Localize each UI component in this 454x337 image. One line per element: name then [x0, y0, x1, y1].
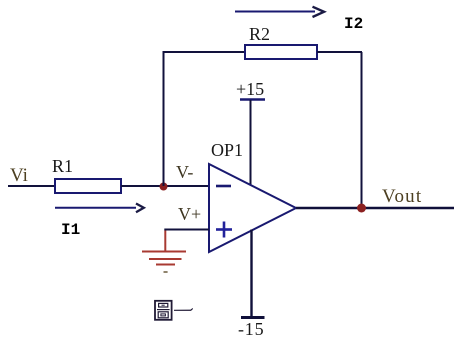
wire feedback vertical right	[361, 52, 363, 208]
wire feedback top left	[163, 51, 246, 53]
op-amp plus input sign	[216, 222, 232, 238]
op-amp U1 triangle	[209, 164, 296, 252]
wire +15 supply to op-amp	[250, 100, 252, 185]
svg-text:R2: R2	[249, 24, 270, 44]
svg-text:+15: +15	[236, 79, 264, 99]
ground	[142, 252, 186, 273]
svg-text:Vout: Vout	[382, 186, 422, 207]
svg-text:-15: -15	[238, 319, 264, 337]
resistor R2	[245, 45, 317, 59]
svg-text:V+: V+	[178, 204, 201, 224]
svg-text:I2: I2	[344, 15, 363, 33]
svg-text:V-: V-	[176, 162, 193, 182]
svg-text:I1: I1	[61, 221, 80, 239]
svg-text:Vi: Vi	[10, 165, 28, 186]
op-amp minus input sign	[216, 185, 231, 188]
wire non-inverting input	[164, 229, 209, 231]
node Vout junction	[357, 204, 366, 213]
wire node V- to op-amp inverting input	[163, 185, 209, 187]
svg-text:R1: R1	[52, 156, 73, 176]
node V- junction	[160, 183, 168, 191]
label figure caption 圖一 glyph 圖	[155, 301, 172, 320]
wire to ground	[164, 231, 166, 251]
wire R1 to node V-	[121, 185, 163, 187]
power -15 bar	[241, 316, 265, 319]
wire -15 supply from op-amp	[250, 230, 252, 318]
resistor R1	[55, 179, 121, 193]
wire feedback vertical left	[163, 52, 165, 186]
current arrow I2	[235, 7, 324, 17]
current arrow I1	[55, 204, 144, 213]
wire output	[296, 207, 454, 209]
wire feedback top right	[317, 51, 362, 53]
svg-text:OP1: OP1	[211, 140, 243, 160]
wire input Vi to R1	[8, 185, 55, 187]
power +15 bar	[240, 98, 265, 101]
label figure caption 圖一 glyph 一	[174, 308, 193, 311]
